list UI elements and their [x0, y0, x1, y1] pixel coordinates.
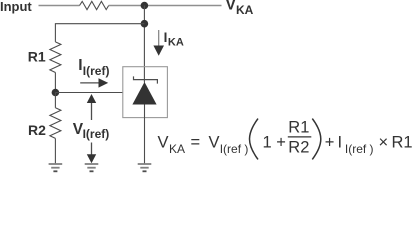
anode wire: [144, 105, 146, 164]
svg-text:KA: KA: [169, 142, 185, 156]
wire branch to R1: [55, 24, 144, 42]
resistor R1: [50, 42, 61, 73]
svg-text:+: +: [276, 133, 286, 151]
svg-text:R1: R1: [28, 48, 46, 64]
svg-text:I(ref ): I(ref ): [220, 142, 249, 156]
svg-text:1: 1: [263, 133, 272, 151]
node ref junction: [52, 89, 60, 97]
TL431 triangle: [132, 82, 156, 105]
svg-text:I(ref ): I(ref ): [345, 142, 374, 156]
wire input to series resistor: [39, 5, 80, 7]
svg-text:R1: R1: [288, 118, 309, 136]
node R1 branch junction: [141, 20, 149, 28]
voltage arrow V(ref) down: [87, 143, 96, 164]
wire series resistor to VKA: [109, 5, 222, 7]
svg-text:R1: R1: [392, 133, 413, 151]
TL431 body box U1: [123, 67, 168, 118]
voltage arrow V(ref) up: [87, 94, 96, 120]
svg-text:×: ×: [379, 133, 389, 151]
svg-text:=: =: [191, 133, 201, 151]
TL431 cathode bar with ticks: [134, 76, 158, 83]
current arrow I(ref): [80, 78, 108, 87]
svg-text:KA: KA: [168, 36, 184, 48]
wire ref to TL431: [55, 92, 122, 94]
node cathode junction: [141, 2, 149, 10]
svg-text:V: V: [226, 0, 237, 14]
ground (Vref): [85, 164, 99, 171]
svg-text:I(ref): I(ref): [83, 127, 110, 141]
wire R1 to ref node: [54, 73, 56, 93]
svg-text:V: V: [158, 133, 169, 151]
current arrow IKA: [153, 30, 164, 56]
svg-text:I: I: [338, 133, 343, 151]
resistor (series, unlabeled): [80, 1, 109, 9]
big parens: [250, 119, 259, 160]
svg-text:R2: R2: [288, 138, 309, 156]
resistor R2: [50, 108, 61, 139]
ground (R2): [49, 164, 63, 171]
ground (anode): [138, 164, 152, 171]
svg-text:+: +: [325, 133, 335, 151]
svg-text:KA: KA: [236, 3, 254, 17]
wire R2 to ground: [54, 138, 56, 163]
svg-text:Input: Input: [0, 0, 32, 14]
equation VKA = VI(ref)(1 + R1/R2) + II(ref) x R1: [158, 118, 413, 159]
svg-text:I: I: [164, 30, 168, 45]
wire R2 top: [54, 93, 56, 108]
wire cathode vertical: [143, 6, 145, 83]
svg-text:R2: R2: [28, 122, 46, 138]
svg-text:I(ref): I(ref): [83, 64, 110, 78]
svg-text:V: V: [209, 133, 220, 151]
